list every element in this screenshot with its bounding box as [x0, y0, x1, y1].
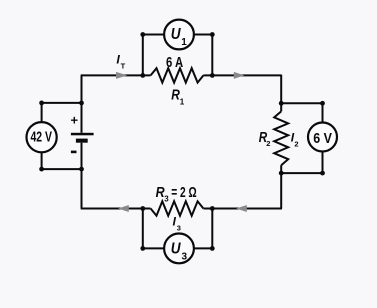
wire: left vertical upper (battery top lead)	[81, 75, 83, 132]
junction dot R2 top	[279, 101, 284, 106]
current arrow bottom right (leftward)	[236, 205, 247, 212]
wire: left vertical lower (battery bottom lead)	[81, 143, 83, 209]
junction dot 42V top left	[39, 101, 44, 106]
wire: 6V meter bottom lead	[322, 151, 324, 173]
wire: 6V branch top connector	[281, 102, 322, 104]
wire: top horizontal right segment	[203, 74, 281, 76]
junction dot 42V top right	[79, 101, 84, 106]
svg-text:6 A: 6 A	[166, 55, 184, 71]
wire: U1 meter right lead	[194, 34, 213, 36]
junction dot 42V bottom left	[39, 167, 44, 172]
wire: U1 meter left lead	[143, 34, 164, 36]
junction dot U3 loop left	[140, 246, 145, 251]
wire: 42V meter top lead	[41, 103, 43, 122]
wire: U3 branch right vertical	[211, 209, 213, 249]
svg-text:3: 3	[177, 224, 181, 233]
junction dot R2 bottom	[279, 171, 284, 176]
battery minus sign	[71, 151, 77, 154]
svg-text:42 V: 42 V	[31, 130, 53, 146]
wire: 42V branch top connector	[42, 102, 82, 104]
current arrow top right (rightward)	[234, 72, 245, 79]
junction dot 42V bottom right	[79, 167, 84, 172]
wire: bottom horizontal left segment	[81, 208, 151, 210]
svg-text:U: U	[171, 26, 181, 43]
wire: 6V branch bottom connector	[281, 172, 322, 174]
svg-text:3: 3	[182, 252, 188, 263]
battery B1 long plate (+)	[71, 133, 94, 136]
resistor R3 zigzag	[151, 201, 204, 215]
resistor R2 zigzag	[274, 111, 288, 165]
battery B1 short plate (-)	[76, 139, 88, 143]
wire: right vertical upper (to R2)	[280, 75, 282, 112]
junction dot bottom wire right	[210, 206, 215, 211]
voltmeter U1 circle	[164, 20, 194, 50]
svg-text:U: U	[171, 240, 181, 257]
junction dot U1 loop left	[140, 32, 145, 37]
wire: U1 branch right vertical	[211, 35, 213, 76]
wire: 42V branch bottom connector	[42, 168, 82, 170]
voltmeter 42V circle	[26, 122, 56, 152]
voltmeter 6V circle	[308, 123, 337, 152]
svg-text:3: 3	[164, 195, 169, 204]
wire: U1 branch left vertical	[142, 35, 144, 76]
svg-text:T: T	[121, 61, 126, 70]
wire: right vertical lower	[280, 165, 282, 208]
wire: U3 meter right lead	[194, 247, 213, 249]
junction dot top wire left	[140, 73, 145, 78]
wire: bottom horizontal right segment	[203, 208, 282, 210]
current arrow top left (rightward)	[116, 72, 127, 79]
voltmeter U3 circle	[164, 234, 194, 264]
junction dot U1 loop right	[210, 32, 215, 37]
wire: U3 meter left lead	[143, 247, 164, 249]
svg-text:2: 2	[294, 139, 298, 148]
svg-text:1: 1	[180, 98, 185, 107]
junction dot U3 loop right	[210, 246, 215, 251]
wire: top horizontal left segment	[81, 74, 151, 76]
svg-text:= 2 Ω: = 2 Ω	[171, 185, 197, 201]
current arrow bottom left (leftward)	[118, 205, 129, 212]
wire: 6V meter top lead	[322, 103, 324, 122]
svg-text:6 V: 6 V	[313, 131, 332, 147]
junction dot bottom wire left	[140, 206, 145, 211]
wire: 42V meter bottom lead	[41, 152, 43, 169]
svg-text:1: 1	[181, 37, 187, 48]
wire: U3 branch left vertical	[142, 209, 144, 249]
junction dot 6V bottom	[320, 171, 325, 176]
svg-text:+: +	[71, 113, 79, 128]
resistor R1 zigzag	[151, 68, 204, 82]
junction dot top wire right	[210, 73, 215, 78]
junction dot 6V top	[320, 101, 325, 106]
svg-text:2: 2	[266, 139, 270, 148]
